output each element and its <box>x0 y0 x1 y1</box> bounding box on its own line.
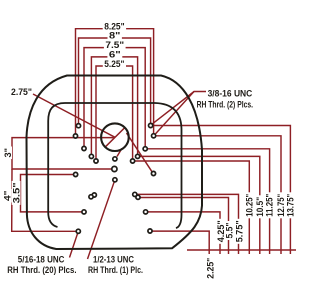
svg-text:RH Thrd. (2) Plcs.: RH Thrd. (2) Plcs. <box>197 100 253 110</box>
svg-text:2.25": 2.25" <box>206 258 216 279</box>
svg-text:8": 8" <box>109 31 120 41</box>
svg-text:5/16-18 UNC: 5/16-18 UNC <box>18 254 65 264</box>
svg-text:5.5": 5.5" <box>225 223 235 239</box>
svg-text:10.25": 10.25" <box>244 194 254 217</box>
svg-text:5.75": 5.75" <box>235 220 245 242</box>
svg-text:1/2-13 UNC: 1/2-13 UNC <box>93 254 134 264</box>
svg-text:2.75": 2.75" <box>11 87 32 97</box>
svg-text:3.5": 3.5" <box>12 182 22 203</box>
svg-text:10.5": 10.5" <box>255 197 265 217</box>
svg-text:11.25": 11.25" <box>265 194 275 217</box>
svg-text:RH Thrd. (1) Plc.: RH Thrd. (1) Plc. <box>88 265 143 275</box>
svg-text:RH Thrd. (20) Plcs.: RH Thrd. (20) Plcs. <box>7 265 76 275</box>
svg-text:3": 3" <box>3 148 13 158</box>
svg-text:4": 4" <box>3 191 13 202</box>
svg-text:3/8-16 UNC: 3/8-16 UNC <box>208 88 253 98</box>
svg-text:5.25": 5.25" <box>104 59 124 69</box>
svg-text:13.75": 13.75" <box>285 194 295 217</box>
